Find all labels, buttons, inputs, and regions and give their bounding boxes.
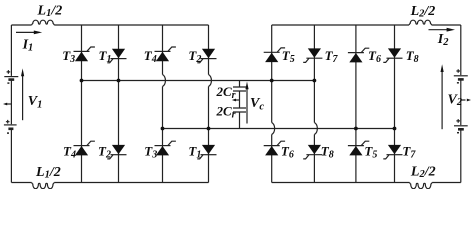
- svg-text:L2/2: L2/2: [410, 4, 436, 19]
- svg-text:T6: T6: [368, 48, 381, 65]
- svg-text:T8: T8: [406, 48, 419, 65]
- svg-text:V1: V1: [28, 94, 43, 111]
- svg-text:2Cr: 2Cr: [216, 104, 236, 121]
- svg-text:L1/2: L1/2: [37, 4, 63, 20]
- svg-text:I2: I2: [437, 32, 449, 48]
- svg-text:T2: T2: [188, 48, 201, 65]
- svg-text:T5: T5: [364, 144, 377, 161]
- svg-text:T7: T7: [325, 48, 339, 65]
- svg-text:T5: T5: [282, 48, 295, 65]
- svg-text:T1: T1: [99, 48, 112, 65]
- svg-text:T7: T7: [402, 144, 416, 161]
- svg-text:T2: T2: [98, 144, 111, 161]
- svg-text:T1: T1: [188, 144, 201, 161]
- svg-text:T4: T4: [144, 48, 157, 65]
- svg-text:2Cr: 2Cr: [216, 84, 236, 101]
- svg-text:L2/2: L2/2: [410, 164, 436, 180]
- svg-text:T8: T8: [321, 144, 334, 161]
- svg-text:L1/2: L1/2: [35, 165, 61, 181]
- svg-text:T3: T3: [62, 48, 75, 65]
- svg-text:T6: T6: [281, 144, 294, 161]
- svg-text:I1: I1: [22, 38, 34, 54]
- svg-text:Vc: Vc: [250, 96, 264, 113]
